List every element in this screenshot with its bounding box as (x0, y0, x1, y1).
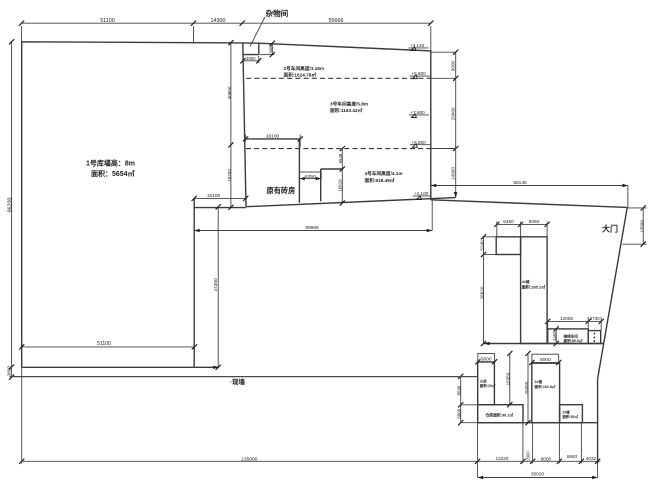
dimension 3600 vertical at storage room (260, 41, 275, 58)
svg-text:3600: 3600 (7, 365, 12, 376)
dimension 15350 (506, 351, 513, 408)
svg-text:8000: 8000 (541, 457, 552, 462)
svg-text:16100: 16100 (266, 134, 280, 140)
building 4#楼 tall block (521, 237, 548, 344)
svg-text:15350: 15350 (506, 372, 511, 385)
dimension 4460 (552, 326, 559, 346)
svg-text:30650: 30650 (227, 86, 232, 99)
workshop block outline (242, 43, 455, 207)
svg-text:13500: 13500 (640, 220, 645, 233)
dimension 5240 (480, 234, 497, 257)
svg-text:51100: 51100 (100, 18, 115, 24)
dimension 6450 (494, 219, 523, 237)
bottom cluster building b1 (478, 362, 495, 405)
svg-text:8060: 8060 (529, 219, 540, 225)
svg-text:15100: 15100 (207, 193, 221, 199)
svg-text:维修车间: 维修车间 (564, 334, 579, 339)
svg-text:3号车间高度/5.8m: 3号车间高度/5.8m (330, 101, 368, 108)
svg-text:4032: 4032 (586, 456, 597, 461)
svg-text:3600: 3600 (269, 44, 274, 54)
svg-text:135000: 135000 (241, 456, 258, 462)
svg-text:35020: 35020 (531, 472, 545, 478)
svg-text:3730: 3730 (590, 316, 600, 321)
dimension 8590 (456, 374, 477, 408)
svg-text:6250: 6250 (305, 174, 316, 180)
dimension 47350 (213, 204, 221, 370)
svg-text:1号库墙高：8m: 1号库墙高：8m (86, 159, 135, 168)
svg-text:10619: 10619 (338, 179, 343, 192)
elevation marker +3.140 (409, 43, 429, 51)
dimension 3600 left bottom (7, 365, 15, 379)
svg-text:面积:1524.78㎡: 面积:1524.78㎡ (284, 72, 317, 79)
small box with dotted line (588, 331, 601, 344)
svg-text:69966: 69966 (305, 225, 319, 231)
dimension 8000 boxed (529, 354, 561, 365)
building 4#楼 narrow wing (496, 237, 520, 255)
dimension 16100 (243, 134, 303, 148)
dimension 35020 (478, 464, 598, 480)
svg-text:51100: 51100 (97, 341, 111, 347)
elevation marker +5.800 lower (410, 140, 430, 148)
dashed boundary workshop3/4 (246, 148, 431, 150)
svg-text:4900: 4900 (246, 56, 256, 61)
svg-text:4460: 4460 (552, 331, 557, 341)
svg-text:+5.800: +5.800 (412, 140, 427, 145)
svg-text:5000: 5000 (481, 356, 492, 362)
svg-text:13220: 13220 (496, 456, 509, 461)
svg-text:58145: 58145 (513, 180, 527, 186)
svg-text:2900: 2900 (526, 451, 531, 461)
dimension 3730 (588, 316, 604, 331)
svg-text:原有砖房: 原有砖房 (267, 186, 296, 195)
dimension 20350 (524, 351, 531, 426)
svg-text:·现墙: ·现墙 (230, 377, 246, 386)
svg-text:6548: 6548 (338, 153, 343, 163)
svg-text:2号车间高度/3.16m: 2号车间高度/3.16m (284, 65, 325, 72)
bottom cluster bottom edge (478, 422, 598, 424)
svg-text:面积:1163.42㎡: 面积:1163.42㎡ (330, 107, 363, 114)
bottom cluster tall building b3 (532, 363, 560, 423)
dimension 5000 lower left (456, 405, 477, 426)
svg-text:55666: 55666 (329, 18, 344, 24)
svg-text:仓库面积:90.1㎡: 仓库面积:90.1㎡ (485, 413, 514, 418)
dimension 12050 (545, 316, 591, 331)
svg-text:面积:285.1㎡: 面积:285.1㎡ (522, 284, 545, 290)
svg-text:面积:918.49㎡: 面积:918.49㎡ (365, 177, 395, 184)
label 杂物间 with leader (250, 8, 289, 47)
svg-text:5000: 5000 (456, 408, 461, 418)
elevation marker +7.800 (409, 110, 429, 118)
site boundary east vertical leg (597, 379, 599, 464)
svg-text:面积:80.6㎡: 面积:80.6㎡ (564, 338, 583, 343)
dimension 5000 boxed (475, 354, 497, 365)
elevation marker +4.100 (413, 191, 431, 200)
building 1 outline (22, 42, 246, 369)
svg-text:+5.800: +5.800 (412, 71, 427, 76)
svg-text:96200: 96200 (7, 198, 13, 213)
dimension column 8000/20900/14800 (431, 50, 459, 198)
svg-text:4#楼: 4#楼 (522, 279, 530, 284)
existing wall line 现墙 (10, 376, 477, 378)
svg-text:面积:55㎡: 面积:55㎡ (562, 414, 578, 419)
svg-text:26620: 26620 (480, 286, 485, 299)
svg-text:14800: 14800 (450, 167, 455, 180)
svg-text:+4.100: +4.100 (414, 191, 429, 196)
dimension 30650 / 18200 line (227, 40, 233, 210)
cluster bottom line to boundary (484, 342, 603, 345)
svg-text:+3.140: +3.140 (410, 43, 425, 48)
site boundary east slant (598, 208, 628, 379)
dimension 51100 bottom (19, 341, 197, 349)
dimension 58145 (431, 180, 628, 208)
dimension 15100 (192, 193, 249, 201)
svg-text:3#楼: 3#楼 (562, 409, 570, 414)
svg-text:面积:20㎡: 面积:20㎡ (480, 383, 496, 388)
svg-text:5240: 5240 (480, 240, 485, 251)
svg-text:面积：5654㎡: 面积：5654㎡ (91, 169, 135, 178)
bottom cluster flat building b2 (478, 405, 523, 423)
dimension 6548 / 10619 line (338, 146, 345, 206)
dimension 96200 left (7, 39, 14, 369)
svg-text:20350: 20350 (524, 381, 529, 394)
maintenance flat building (548, 329, 589, 344)
svg-text:6450: 6450 (503, 219, 514, 225)
inner room wall horizontal (321, 168, 343, 170)
svg-text:4号车间高度/4.1m: 4号车间高度/4.1m (365, 170, 403, 177)
svg-text:+7.800: +7.800 (411, 110, 426, 115)
svg-text:2#楼: 2#楼 (535, 379, 543, 384)
svg-text:47350: 47350 (213, 278, 219, 292)
dimension 8060 (521, 219, 550, 237)
dimension 69966 (194, 199, 432, 233)
svg-text:大门: 大门 (602, 224, 618, 234)
svg-text:18200: 18200 (227, 169, 232, 182)
svg-text:14300: 14300 (211, 18, 226, 24)
site boundary north of yard (431, 200, 627, 208)
svg-text:6863: 6863 (567, 454, 578, 459)
bottom cluster low building b4 (560, 405, 583, 423)
dimension 26620 (480, 255, 487, 347)
svg-text:12050: 12050 (560, 316, 574, 322)
inner room wall vertical (320, 169, 322, 201)
svg-text:面积:162.8㎡: 面积:162.8㎡ (535, 384, 556, 389)
bottom main dimension line (19, 367, 600, 477)
dimension 4900 (240, 56, 261, 64)
svg-text:8590: 8590 (456, 385, 461, 395)
svg-text:杂物间: 杂物间 (266, 8, 289, 18)
svg-text:20900: 20900 (450, 107, 455, 120)
dashed boundary workshop2/3 (246, 77, 431, 79)
brick house 原有砖房 outline (246, 139, 301, 203)
svg-text:8000: 8000 (540, 357, 551, 363)
elevation marker +5.800 (410, 71, 430, 79)
dimension 13500 gate (623, 205, 647, 247)
svg-text:8000: 8000 (450, 60, 455, 71)
dimension line top 51100/14300/55666 (19, 21, 433, 51)
dimension 6250 boxed (299, 172, 321, 180)
room 杂物间 box (243, 43, 259, 55)
